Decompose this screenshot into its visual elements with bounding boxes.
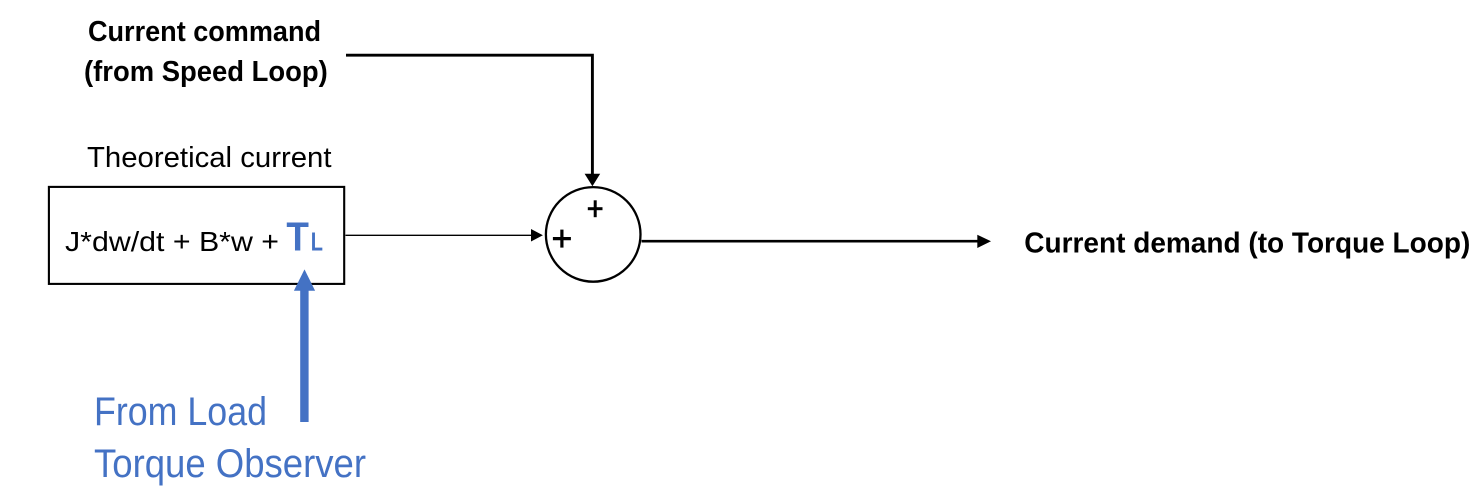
label: From Load Torque Observer xyxy=(94,390,366,486)
arrowhead at output xyxy=(977,235,991,248)
block: theoretical current model box xyxy=(49,187,344,284)
plus sign (top input) xyxy=(588,200,603,217)
wire: box output to summing junction (thin) xyxy=(346,234,533,236)
svg-text:J*dw/dt + B*w +: J*dw/dt + B*w + xyxy=(65,226,279,257)
wire: current command feed (right then down into summing junction) xyxy=(346,55,592,175)
label: Current command (from Speed Loop) xyxy=(84,16,328,88)
svg-text:Current command: Current command xyxy=(88,16,321,48)
svg-text:(from Speed Loop): (from Speed Loop) xyxy=(84,56,328,88)
svg-text:T: T xyxy=(286,214,309,260)
svg-text:Theoretical current: Theoretical current xyxy=(87,142,332,174)
svg-text:Torque Observer: Torque Observer xyxy=(94,442,366,486)
svg-text:Current demand (to Torque Loop: Current demand (to Torque Loop) xyxy=(1024,227,1470,259)
blue arrow: load torque observer input (shaft) xyxy=(300,288,308,422)
summing junction circle xyxy=(546,187,641,282)
blue arrowhead xyxy=(294,269,315,290)
plus sign (left input) xyxy=(553,230,571,248)
wire: summing junction output xyxy=(642,240,979,243)
svg-text:L: L xyxy=(311,227,323,257)
value label: J*dw/dt + B*w + TL xyxy=(65,214,323,260)
svg-text:From Load: From Load xyxy=(94,390,267,434)
arrowhead into top of summing junction xyxy=(585,174,601,187)
arrowhead at summing junction left xyxy=(531,229,543,242)
